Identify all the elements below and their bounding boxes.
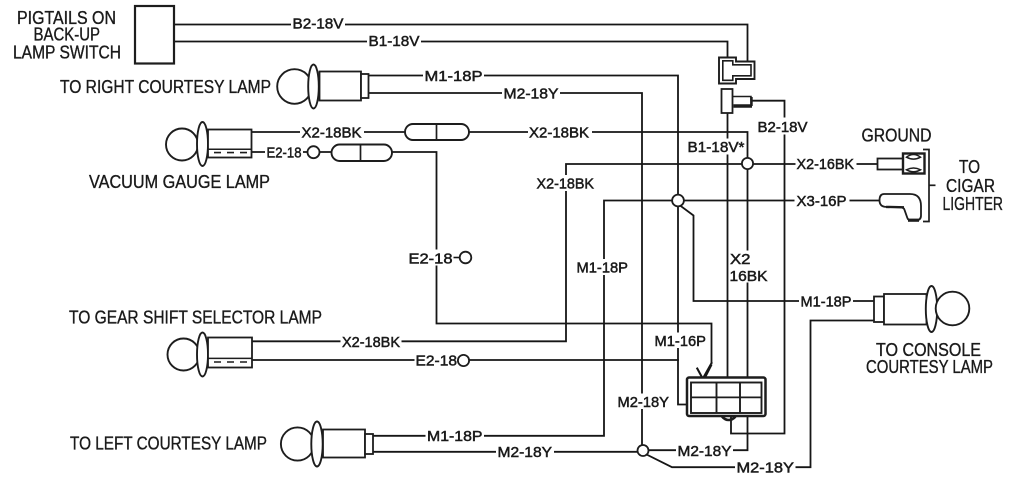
svg-text:B2-18V: B2-18V — [293, 16, 344, 33]
svg-text:COURTESY LAMP: COURTESY LAMP — [866, 357, 993, 377]
svg-text:LIGHTER: LIGHTER — [943, 194, 1004, 214]
svg-text:M2-18Y: M2-18Y — [678, 443, 732, 460]
svg-text:M1-18P: M1-18P — [801, 294, 852, 311]
svg-text:TO GEAR SHIFT SELECTOR LAMP: TO GEAR SHIFT SELECTOR LAMP — [69, 308, 322, 328]
svg-text:CIGAR: CIGAR — [946, 176, 995, 196]
svg-text:TO LEFT COURTESY LAMP: TO LEFT COURTESY LAMP — [70, 434, 267, 454]
svg-text:M1-16P: M1-16P — [655, 333, 707, 350]
svg-text:BACK-UP: BACK-UP — [34, 25, 101, 45]
svg-text:B1-18V*: B1-18V* — [688, 139, 745, 156]
svg-text:VACUUM GAUGE LAMP: VACUUM GAUGE LAMP — [89, 172, 270, 192]
svg-text:B2-18V: B2-18V — [758, 119, 808, 136]
svg-text:X2: X2 — [730, 251, 751, 268]
svg-text:X2-18BK: X2-18BK — [342, 334, 400, 351]
svg-text:LAMP SWITCH: LAMP SWITCH — [13, 43, 121, 63]
svg-text:X3-16P: X3-16P — [797, 193, 847, 210]
svg-text:E2-18: E2-18 — [267, 145, 302, 162]
svg-text:X2-18BK: X2-18BK — [529, 125, 589, 142]
svg-text:M1-18P: M1-18P — [425, 68, 483, 85]
svg-text:E2-18: E2-18 — [409, 251, 453, 268]
svg-text:16BK: 16BK — [730, 268, 768, 285]
svg-text:B1-18V: B1-18V — [369, 33, 420, 50]
svg-text:M2-18Y: M2-18Y — [498, 444, 553, 461]
svg-text:X2-16BK: X2-16BK — [797, 156, 855, 173]
svg-text:TO: TO — [959, 157, 980, 177]
svg-text:M2-18Y: M2-18Y — [618, 394, 670, 411]
svg-text:M2-18Y: M2-18Y — [737, 460, 795, 477]
svg-text:M1-18P: M1-18P — [577, 260, 629, 277]
svg-text:E2-18: E2-18 — [416, 353, 458, 370]
svg-text:M1-18P: M1-18P — [427, 428, 483, 445]
svg-text:X2-18BK: X2-18BK — [302, 125, 362, 142]
svg-text:TO RIGHT COURTESY LAMP: TO RIGHT COURTESY LAMP — [60, 77, 271, 97]
svg-text:GROUND: GROUND — [862, 126, 932, 146]
svg-text:M2-18Y: M2-18Y — [504, 86, 559, 103]
svg-text:X2-18BK: X2-18BK — [537, 176, 595, 193]
